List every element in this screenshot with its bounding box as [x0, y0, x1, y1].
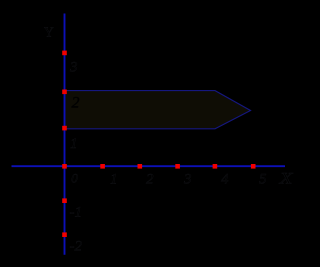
node origin: [62, 164, 67, 169]
node y=-1: [62, 198, 67, 203]
pentagon arrow region fill and blue border: [65, 91, 251, 129]
svg-text:3: 3: [69, 60, 78, 76]
svg-text:-2: -2: [70, 239, 83, 255]
svg-text:5: 5: [259, 172, 267, 188]
node y=-2: [62, 232, 67, 237]
svg-text:0: 0: [71, 171, 78, 186]
node x=3: [175, 164, 180, 169]
node x=2: [138, 164, 143, 169]
svg-text:2: 2: [146, 172, 154, 188]
wire x-axis: [12, 165, 286, 167]
node y=2: [62, 90, 67, 95]
svg-text:X: X: [278, 171, 294, 188]
node y=3: [62, 51, 67, 56]
svg-text:3: 3: [183, 172, 192, 188]
svg-text:-1: -1: [70, 205, 83, 221]
svg-text:1: 1: [70, 136, 78, 152]
wire y-axis: [64, 14, 66, 255]
node x=1: [100, 164, 105, 169]
node y=1: [62, 126, 67, 131]
node x=4: [213, 164, 218, 169]
svg-text:2: 2: [72, 95, 80, 112]
svg-text:4: 4: [221, 172, 229, 188]
svg-text:Y: Y: [44, 25, 54, 40]
node x=5: [251, 164, 256, 169]
svg-text:1: 1: [110, 172, 118, 188]
